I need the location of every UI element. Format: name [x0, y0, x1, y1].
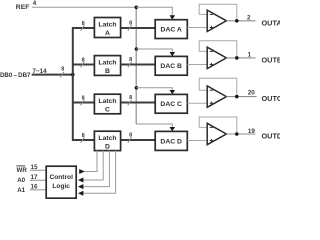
svg-text:19: 19: [248, 128, 256, 135]
bus slash 8 latch B output: [128, 62, 132, 68]
svg-text:OUTD: OUTD: [262, 132, 281, 141]
svg-text:16: 16: [30, 183, 38, 190]
bus slash 8 latch D input: [81, 137, 85, 143]
node junction dot REF/DAC B: [135, 47, 139, 51]
bus slash 8 latch C output: [128, 100, 132, 106]
wire REF branch to DAC A: [136, 7, 172, 15]
latch D: [94, 131, 120, 150]
svg-text:A0: A0: [17, 177, 25, 184]
svg-text:OUTC: OUTC: [262, 94, 281, 103]
control logic U1: [46, 166, 76, 198]
svg-text:DAC D: DAC D: [160, 138, 182, 145]
wire REF vertical bus: [135, 7, 137, 124]
wire bus stub to latch C: [72, 102, 94, 104]
svg-text:Control: Control: [49, 174, 73, 181]
node junction dot REF/DAC C: [135, 86, 139, 90]
DAC C: [155, 94, 187, 113]
svg-text:DAC B: DAC B: [160, 63, 182, 70]
bus slash 8 latch A input: [81, 25, 85, 31]
svg-text:A1: A1: [17, 187, 25, 194]
wire latch C to DAC C bus: [121, 102, 156, 104]
svg-text:C: C: [105, 107, 110, 114]
svg-text:1: 1: [247, 52, 251, 59]
bus slash 8 latch D output: [128, 137, 132, 143]
svg-text:OUTB: OUTB: [262, 55, 281, 64]
bus width slash 8 on input: [60, 72, 64, 78]
svg-text:4: 4: [33, 0, 37, 7]
node junction dot REF/DAC A: [135, 6, 139, 10]
wire REF branch to DAC D: [136, 124, 172, 127]
svg-text:Latch: Latch: [98, 59, 116, 66]
wire data bus vertical: [72, 27, 74, 141]
latch A: [94, 18, 120, 38]
wire control logic enable 3: [84, 150, 110, 186]
svg-text:8: 8: [129, 132, 132, 138]
wire bus stub to latch D: [72, 139, 94, 141]
wire control logic to latch D enable 1: [84, 150, 97, 171]
wire DB0-DB7 input bus: [32, 74, 73, 76]
op-amp C: [187, 78, 256, 107]
wire latch B to DAC B bus: [121, 64, 156, 66]
svg-text:8: 8: [61, 66, 64, 72]
wire control logic enable 4: [84, 150, 116, 193]
wire latch D to DAC D bus: [121, 139, 156, 141]
latch C: [94, 94, 120, 114]
svg-text:8: 8: [129, 57, 132, 63]
wire REF input line: [32, 6, 136, 8]
op-amp B: [187, 41, 255, 69]
svg-text:2: 2: [247, 15, 251, 22]
DAC A: [155, 20, 187, 39]
svg-text:Latch: Latch: [98, 135, 116, 142]
op-amp A: [187, 4, 255, 31]
bus slash 8 latch A output: [128, 25, 132, 31]
svg-text:DAC C: DAC C: [160, 101, 182, 108]
svg-text:WR: WR: [17, 167, 28, 174]
DAC B: [155, 56, 187, 75]
svg-text:8: 8: [82, 95, 85, 101]
svg-text:Latch: Latch: [98, 98, 116, 105]
svg-text:DAC A: DAC A: [161, 27, 182, 34]
svg-text:8: 8: [129, 20, 132, 26]
op-amp D: [187, 117, 255, 145]
wire REF branch to DAC C: [136, 88, 172, 90]
wire REF branch to DAC B: [136, 49, 172, 52]
bus slash 8 latch C input: [81, 100, 85, 106]
node junction dot data bus: [71, 73, 75, 77]
svg-text:REF: REF: [16, 4, 30, 11]
svg-text:A: A: [105, 30, 110, 37]
wire control logic enable 2: [84, 150, 104, 180]
svg-text:B: B: [105, 68, 110, 75]
wire A0 input: [30, 179, 46, 181]
svg-text:D: D: [105, 144, 110, 151]
svg-text:Latch: Latch: [98, 21, 116, 28]
DAC D: [155, 131, 187, 150]
svg-text:8: 8: [82, 57, 85, 63]
svg-text:Logic: Logic: [52, 183, 70, 190]
svg-text:20: 20: [248, 90, 256, 97]
svg-text:8: 8: [82, 133, 85, 139]
latch B: [94, 56, 120, 76]
wire bus stub to latch A: [72, 27, 94, 29]
svg-text:8: 8: [129, 95, 132, 101]
svg-text:8: 8: [82, 21, 85, 27]
svg-text:OUTA: OUTA: [262, 18, 281, 27]
svg-text:DB0 – DB7: DB0 – DB7: [0, 72, 31, 79]
wire A1 input: [30, 189, 46, 191]
wire latch A to DAC A bus: [121, 27, 156, 29]
wire WR input: [30, 169, 46, 171]
bus slash 8 latch B input: [81, 62, 85, 68]
wire bus stub to latch B: [72, 64, 94, 66]
